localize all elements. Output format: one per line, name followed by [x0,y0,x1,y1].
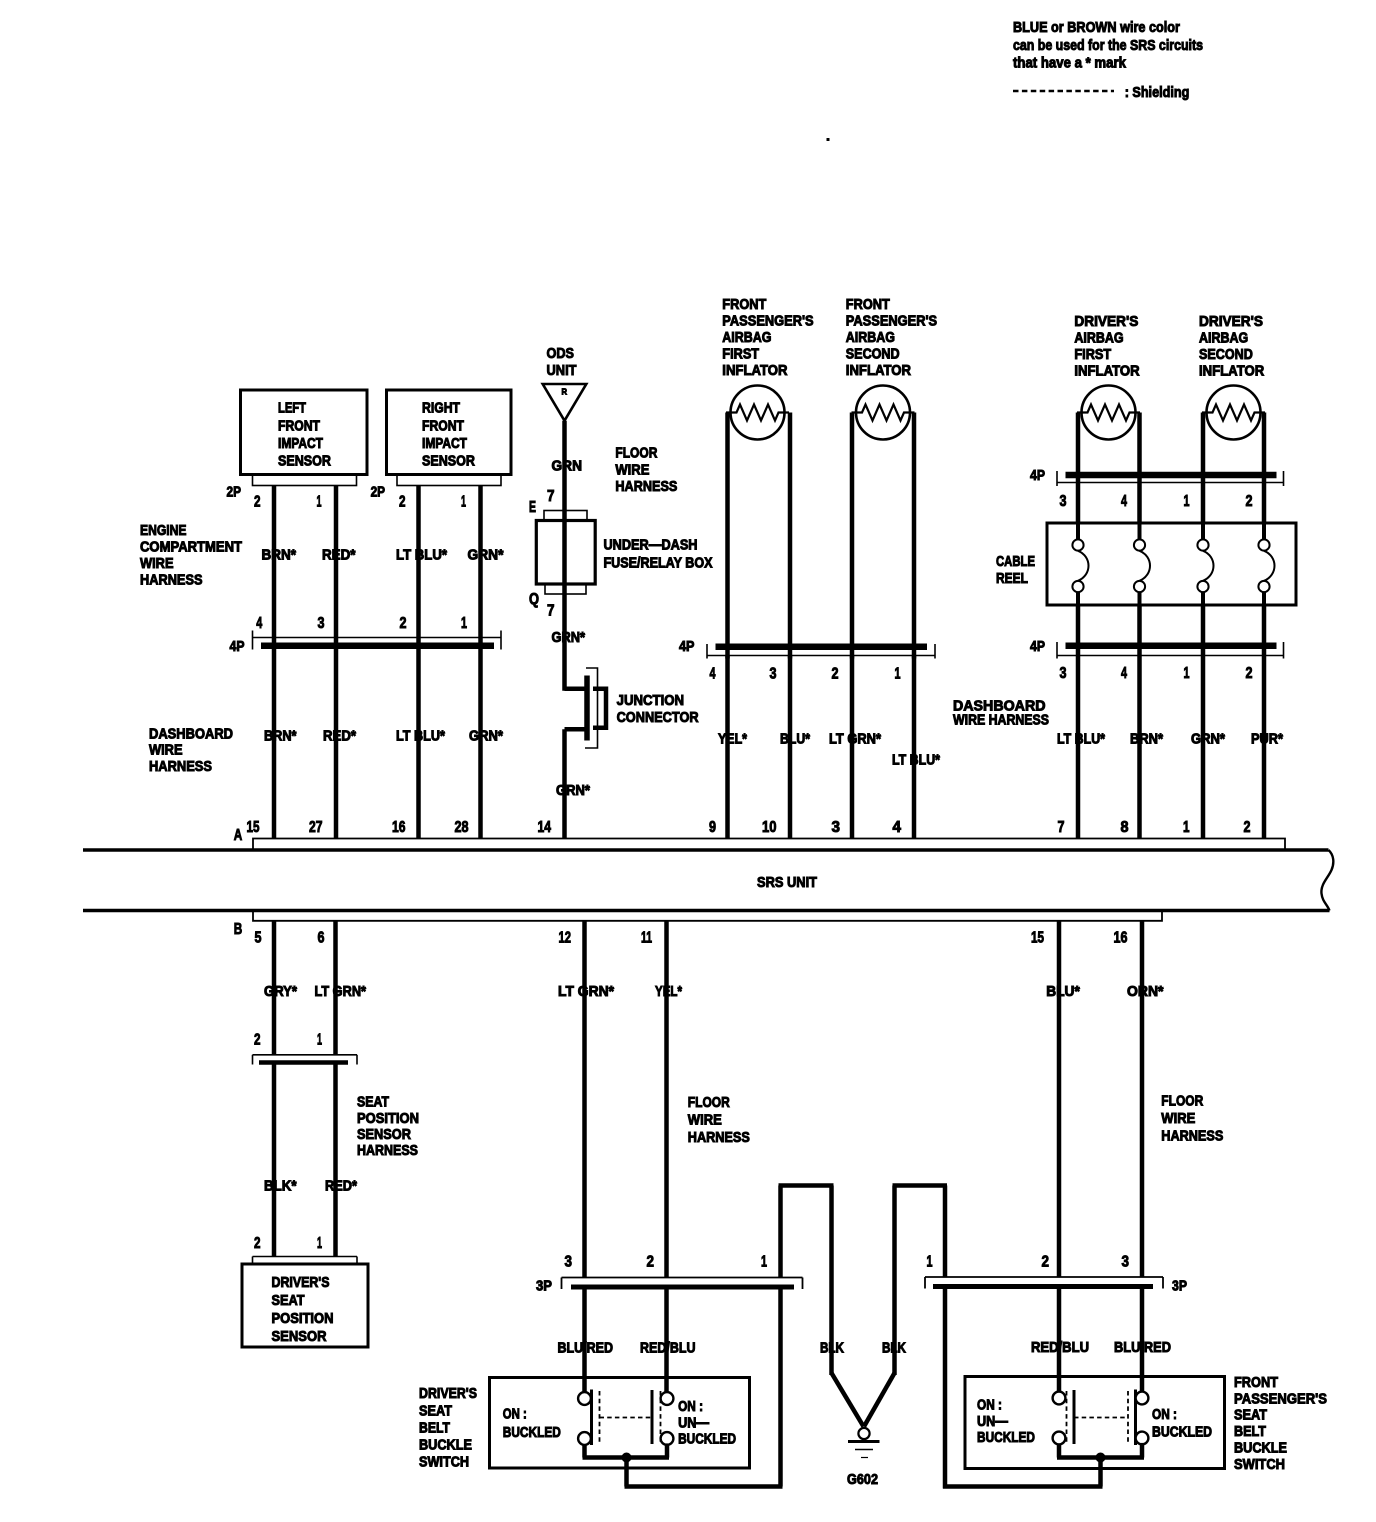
label: DRIVERS AIRBAG FIRST INFLATOR [1074,314,1140,380]
wire GRN* (right sensor pin1 to 4P pin1) [468,486,504,650]
wire BRN* (left sensor pin2 to 4P pin4) [262,486,297,650]
legend shielding dashed line [1013,90,1114,93]
wire BLU/RED (3P pin3 to passenger buckle switch) [1114,1289,1171,1392]
SRS unit connector B pin numbers [234,921,1128,947]
svg-text:SWITCH: SWITCH [1234,1457,1285,1473]
under-dash fuse/relay box [536,511,712,595]
svg-text:BLUE or BROWN wire color: BLUE or BROWN wire color [1013,20,1180,36]
svg-text:UN—: UN— [678,1415,709,1431]
svg-text:HARNESS: HARNESS [688,1130,750,1146]
svg-text:LT GRN*: LT GRN* [558,984,614,1000]
svg-text:9: 9 [709,819,716,836]
svg-text:HARNESS: HARNESS [615,479,677,495]
svg-text:CABLE: CABLE [996,554,1035,570]
svg-text:FIRST: FIRST [1074,347,1111,363]
svg-text:LT BLU*: LT BLU* [396,547,447,563]
box: DRIVERS SEAT POSITION SENSOR [242,1264,368,1347]
svg-text:2: 2 [254,1032,261,1049]
svg-text:4: 4 [1121,665,1127,682]
svg-text:4P: 4P [1030,639,1045,655]
sensor box: RIGHT FRONT IMPACT SENSOR [387,390,512,475]
label: DASHBOARD WIRE HARNESS (left) [149,726,233,775]
ground G602 symbol [847,1428,880,1488]
svg-text:1: 1 [317,1032,322,1049]
label: DASHBOARD WIRE HARNESS (right) [953,698,1049,728]
wire LT GRN* (SRS B6 to seat position connector pin1) [315,921,367,1055]
svg-text:BUCKLED: BUCKLED [503,1425,561,1441]
legend label : Shielding [1125,85,1190,101]
svg-text:LT BLU*: LT BLU* [1057,731,1105,747]
svg-text:2: 2 [399,494,406,511]
label: ENGINE COMPARTMENT WIRE HARNESS [140,523,242,589]
switch contacts passenger buckle (buckled side) [1074,1390,1148,1446]
wire RED/BLU (3P pin2 to passenger buckle switch) [1031,1289,1089,1392]
squib: front passenger airbag second inflator [852,386,915,440]
svg-text:INFLATOR: INFLATOR [1199,364,1265,380]
svg-text:FUSE/RELAY BOX: FUSE/RELAY BOX [604,555,713,571]
cable reel sliding contact 2 [1134,523,1150,605]
wire YEL* (first inflator to 4P pin4) [725,413,730,659]
svg-text:4: 4 [1121,493,1127,510]
svg-text:BUCKLED: BUCKLED [1152,1425,1212,1441]
svg-text:ON :: ON : [503,1406,527,1422]
squib: front passenger airbag first inflator [726,386,789,440]
svg-text:1: 1 [761,1254,767,1271]
wire LT BLU* (cable reel to SRS A7) [1057,605,1105,839]
wire BLK ground riser left (3P pin1 up and over) [779,1186,864,1427]
label: ON BUCKLED (passenger) [1152,1407,1212,1441]
svg-text:7: 7 [1058,819,1065,836]
wire RED* (left sensor pin1 to 4P pin3) [322,486,356,650]
svg-text:4: 4 [893,819,902,836]
svg-text:1: 1 [927,1254,933,1271]
svg-text:SENSOR: SENSOR [422,454,475,470]
svg-text:WIRE: WIRE [140,556,174,572]
connector 4P cable reel upper [1030,468,1284,510]
wire YEL* (SRS B11 to 3P pin2) [655,921,682,1278]
svg-text:PASSENGER'S: PASSENGER'S [722,313,814,329]
svg-text:1: 1 [461,615,467,632]
label: FLOOR WIRE HARNESS (driver side) [688,1095,750,1146]
svg-text:3: 3 [565,1254,573,1271]
SRS unit connector A strip [253,839,1285,850]
label: FLOOR WIRE HARNESS (passenger side) [1161,1093,1223,1144]
svg-text:BLK: BLK [882,1340,906,1356]
svg-text:1: 1 [461,494,466,511]
svg-text:RED/BLU: RED/BLU [1031,1340,1089,1356]
connector E7 (fuse box top) [529,488,587,521]
svg-text:WIRE: WIRE [688,1113,722,1129]
svg-text:YEL*: YEL* [655,984,682,1000]
svg-text:BLU/RED: BLU/RED [558,1340,614,1356]
connector 4P cable reel lower [1030,639,1284,682]
svg-text:2: 2 [400,615,407,632]
svg-text:INFLATOR: INFLATOR [846,363,912,379]
label: DRIVERS AIRBAG SECOND INFLATOR [1199,314,1265,380]
wire (second inflator right to cable reel 4P pin2) [1262,413,1267,525]
svg-text:Q: Q [529,591,539,608]
svg-text:DRIVER'S: DRIVER'S [272,1275,330,1291]
label: ON UN-BUCKLED (driver) [678,1399,736,1448]
svg-text:15: 15 [247,819,260,836]
svg-text:6: 6 [318,930,325,947]
svg-text:WIRE: WIRE [149,743,183,759]
svg-text:2P: 2P [227,484,242,500]
svg-text:SEAT: SEAT [272,1293,305,1309]
svg-text:FLOOR: FLOOR [688,1095,730,1111]
svg-text:WIRE HARNESS: WIRE HARNESS [953,713,1049,729]
connector above drivers seat position sensor [253,1235,358,1264]
svg-text:SENSOR: SENSOR [278,454,331,470]
svg-text:UNDER—DASH: UNDER—DASH [604,538,698,554]
svg-text:3P: 3P [1172,1278,1187,1294]
svg-text:3: 3 [1060,493,1067,510]
box: drivers seat belt buckle switch [490,1378,750,1469]
svg-text:INFLATOR: INFLATOR [722,363,788,379]
sensor box: LEFT FRONT IMPACT SENSOR [241,390,368,475]
svg-text:4P: 4P [230,639,245,655]
SRS unit connector B strip [253,911,1162,921]
svg-text:POSITION: POSITION [357,1111,419,1127]
svg-text:GRN*: GRN* [1191,731,1225,747]
SRS unit box [83,850,1333,911]
svg-text:can be used for the SRS circui: can be used for the SRS circuits [1013,38,1203,54]
svg-text:BLU/RED: BLU/RED [1114,1340,1171,1356]
svg-text:UN—: UN— [977,1414,1008,1430]
cable reel sliding contact 3 [1197,523,1213,605]
wire (first inflator right to cable reel 4P pin4) [1137,413,1142,525]
svg-text:12: 12 [559,930,572,947]
connector 4P front passenger airbag [679,639,935,683]
svg-text:RED*: RED* [322,547,356,563]
wire BLU* (first inflator to 4P pin3) [788,413,793,659]
svg-text:SECOND: SECOND [846,346,900,362]
svg-text:SEAT: SEAT [357,1095,389,1111]
svg-text:ON :: ON : [1152,1407,1177,1423]
svg-text:POSITION: POSITION [272,1311,334,1327]
svg-text:YEL*: YEL* [718,731,747,747]
svg-text:DRIVER'S: DRIVER'S [1074,314,1138,330]
wire LT BLU* (right sensor pin2 to 4P pin2) [396,486,447,650]
svg-text:1: 1 [317,1235,322,1252]
wire BLU* (SRS B15 to 3P pin2) [1046,921,1080,1277]
svg-text:SECOND: SECOND [1199,347,1253,363]
svg-text:2P: 2P [371,484,386,500]
label: FLOOR WIRE HARNESS (ODS) [615,446,677,496]
wire GRN* (fuse box to junction connector) [552,594,586,691]
squib: drivers airbag second inflator [1202,386,1265,440]
cable reel box [996,523,1296,605]
svg-text:BELT: BELT [419,1420,450,1436]
svg-text:GRN*: GRN* [469,728,503,744]
wire BLK* (seat position harness) [264,1065,297,1257]
svg-text:FRONT: FRONT [1234,1375,1278,1391]
svg-text:SENSOR: SENSOR [357,1127,411,1143]
svg-text:PUR*: PUR* [1251,731,1283,747]
svg-text:27: 27 [309,819,323,836]
svg-text:4P: 4P [679,639,695,655]
svg-text:1: 1 [895,666,901,683]
label: DRIVERS SEAT BELT BUCKLE SWITCH [419,1386,477,1470]
svg-text:8: 8 [1121,819,1129,836]
svg-text:IMPACT: IMPACT [278,436,323,452]
svg-text:GRN*: GRN* [552,630,586,646]
svg-text:DASHBOARD: DASHBOARD [149,726,233,742]
svg-text:16: 16 [1114,930,1128,947]
connector 2P under left front impact sensor [227,475,357,511]
svg-text:JUNCTION: JUNCTION [617,693,685,709]
svg-text:LT GRN*: LT GRN* [829,731,881,747]
wire (second inflator left to cable reel 4P pin1) [1201,413,1206,525]
wire GRN* dashboard (4P pin1 to SRS A28) [469,649,503,839]
wire GRY* (SRS B5 to seat position connector pin2) [264,921,297,1055]
svg-text:BLK*: BLK* [264,1178,297,1194]
svg-text:3: 3 [832,819,841,836]
svg-text:WIRE: WIRE [615,462,649,478]
svg-text:RED/BLU: RED/BLU [640,1340,696,1356]
svg-text:RED*: RED* [323,728,356,744]
svg-text:ODS: ODS [547,346,575,362]
svg-text:FRONT: FRONT [422,418,464,434]
wire GRN* (junction connector to SRS A14) [556,729,590,838]
wire RED* (seat position harness) [325,1065,357,1257]
svg-text:FRONT: FRONT [722,297,766,313]
svg-text:BUCKLE: BUCKLE [419,1438,472,1454]
svg-text:B: B [234,921,243,938]
svg-text:A: A [234,827,243,844]
svg-text:4P: 4P [1030,468,1045,484]
wire YEL* label and run to SRS A9 [718,656,747,839]
svg-text:1: 1 [1184,665,1190,682]
svg-text:2: 2 [1042,1254,1050,1271]
svg-text:SEAT: SEAT [1234,1408,1267,1424]
svg-text:BLU*: BLU* [780,731,810,747]
svg-text:ON :: ON : [678,1399,703,1415]
svg-text:FLOOR: FLOOR [615,446,657,462]
svg-text:3: 3 [1060,665,1067,682]
wire: buckle switch common to ground run (passenger) [943,1443,1144,1487]
svg-text:4: 4 [710,666,716,683]
wire LT GRN* (SRS B12 to 3P pin3) [558,921,614,1278]
connector 2P under right front impact sensor [371,475,501,511]
wire (first inflator left to cable reel 4P pin3) [1076,413,1081,525]
switch contacts driver buckle (buckled side) [578,1390,599,1446]
svg-text:SWITCH: SWITCH [419,1455,469,1471]
svg-text:11: 11 [641,930,652,947]
svg-text:2: 2 [647,1254,655,1271]
svg-text:RIGHT: RIGHT [422,401,460,417]
svg-text:FRONT: FRONT [278,418,320,434]
wire RED/BLU (3P pin2 to buckle switch) [640,1289,696,1392]
svg-text:1: 1 [1184,493,1190,510]
svg-text:14: 14 [538,819,552,836]
svg-text:COMPARTMENT: COMPARTMENT [140,540,242,556]
label: SEAT POSITION SENSOR HARNESS [357,1095,419,1159]
svg-text:28: 28 [455,819,469,836]
connector 4P engine compartment / dashboard [230,615,502,655]
svg-text:LEFT: LEFT [278,401,306,417]
svg-text:15: 15 [1031,930,1044,947]
wire: buckle switch common to ground run (driver) [583,1289,783,1487]
label: FRONT PASSENGERS SEAT BELT BUCKLE SWITCH [1234,1375,1327,1473]
svg-text:LT BLU*: LT BLU* [892,752,940,768]
svg-text:CONNECTOR: CONNECTOR [617,710,699,726]
svg-text:4: 4 [256,615,262,632]
svg-text:SRS UNIT: SRS UNIT [757,875,817,891]
svg-text:HARNESS: HARNESS [149,759,212,775]
wire LT GRN* (second inflator to 4P pin2) [850,413,855,659]
svg-text:ENGINE: ENGINE [140,523,187,539]
svg-text:16: 16 [392,819,406,836]
svg-text:BUCKLED: BUCKLED [977,1430,1035,1446]
svg-text:LT BLU*: LT BLU* [396,728,445,744]
stray mark (scan speck) [827,138,830,141]
svg-text:SEAT: SEAT [419,1403,452,1419]
svg-text:7: 7 [547,488,555,505]
svg-text:GRN*: GRN* [468,547,504,563]
wire LT GRN* label and run to SRS A3 [829,656,881,839]
svg-text:7: 7 [547,603,555,620]
svg-text:BUCKLE: BUCKLE [1234,1440,1287,1456]
svg-text:ON :: ON : [977,1397,1002,1413]
svg-text:2: 2 [254,1235,261,1252]
wire RED* dashboard (4P pin3 to SRS A27) [323,649,356,839]
svg-text:BLU*: BLU* [1046,984,1080,1000]
svg-text:2: 2 [1246,493,1253,510]
svg-text:LT GRN*: LT GRN* [315,984,367,1000]
svg-text:HARNESS: HARNESS [140,573,203,589]
svg-text:DRIVER'S: DRIVER'S [1199,314,1263,330]
svg-text:HARNESS: HARNESS [357,1143,418,1159]
wire PUR* (cable reel to SRS A2) [1251,605,1283,839]
svg-text:AIRBAG: AIRBAG [846,330,895,346]
svg-text:1: 1 [317,494,322,511]
svg-text:BELT: BELT [1234,1424,1266,1440]
label: FRONT PASSENGER AIRBAG SECOND INFLATOR [846,297,938,379]
svg-text:IMPACT: IMPACT [422,436,467,452]
svg-text:GRN: GRN [552,459,583,475]
connector Q7 (fuse box bottom) [529,584,586,620]
svg-text:3: 3 [1122,1254,1130,1271]
svg-text:5: 5 [255,930,262,947]
svg-text:GRY*: GRY* [264,984,297,1000]
wire LT BLU* (second inflator to 4P pin1) [912,413,917,659]
svg-text:SENSOR: SENSOR [272,1329,327,1345]
svg-text:AIRBAG: AIRBAG [1074,331,1123,347]
svg-text:2: 2 [832,666,839,683]
svg-text:WIRE: WIRE [1161,1111,1195,1127]
svg-text:AIRBAG: AIRBAG [1199,331,1248,347]
svg-text:ORN*: ORN* [1127,984,1164,1000]
svg-text:BRN*: BRN* [264,728,297,744]
svg-text:RED*: RED* [325,1178,357,1194]
svg-text:2: 2 [1244,819,1251,836]
switch contacts driver buckle (unbuckled side) [600,1390,674,1445]
label: ON BUCKLED (driver) [503,1406,561,1441]
connector 3P front passenger seat belt buckle switch [925,1254,1187,1295]
wire LT BLU* dashboard (4P pin2 to SRS A16) [396,649,445,839]
cable reel sliding contact 4 [1258,523,1274,605]
connector 2P seat position sensor harness [253,1032,358,1065]
note: wire color legend text [1013,20,1203,72]
connector 3P driver seat belt buckle switch [536,1254,803,1295]
wire BLU* label and run to SRS A10 [780,656,810,839]
svg-text:10: 10 [762,819,777,836]
ODS unit (triangle symbol) [543,346,587,421]
svg-text:DRIVER'S: DRIVER'S [419,1386,477,1402]
svg-text:BLK: BLK [820,1340,844,1356]
svg-text:UNIT: UNIT [547,363,577,379]
wire GRN (ODS unit to under-dash fuse/relay box pin E7) [552,421,583,511]
svg-text:E: E [529,499,536,516]
wire BLU/RED (3P pin3 to buckle switch) [558,1289,614,1392]
label: FRONT PASSENGER AIRBAG FIRST INFLATOR [722,297,814,379]
squib: drivers airbag first inflator [1077,386,1140,440]
svg-text:3P: 3P [536,1278,552,1294]
svg-text:BRN*: BRN* [1130,731,1163,747]
svg-text:FLOOR: FLOOR [1161,1093,1203,1109]
svg-text:PASSENGER'S: PASSENGER'S [1234,1391,1327,1407]
svg-text:HARNESS: HARNESS [1161,1129,1223,1145]
svg-text:PASSENGER'S: PASSENGER'S [846,313,938,329]
wire ORN* (SRS B16 to 3P pin3) [1127,921,1164,1277]
wire BRN* (cable reel to SRS A8) [1130,605,1163,839]
svg-text:that have a * mark: that have a * mark [1013,56,1127,72]
svg-text:3: 3 [318,615,325,632]
svg-text:REEL: REEL [996,571,1028,587]
svg-text:: Shielding: : Shielding [1125,85,1190,101]
svg-text:G602: G602 [847,1472,878,1488]
svg-text:BUCKLED: BUCKLED [678,1432,736,1448]
svg-text:FRONT: FRONT [846,297,890,313]
switch contacts passenger buckle (unbuckled side) [1053,1390,1074,1444]
svg-text:1: 1 [1183,819,1190,836]
svg-text:2: 2 [1246,665,1253,682]
svg-text:3: 3 [770,666,777,683]
junction connector [565,668,700,748]
wire BLK ground riser right (3P pin1 up and over) [864,1186,947,1489]
svg-text:INFLATOR: INFLATOR [1074,364,1140,380]
wire BRN* dashboard (4P pin4 to SRS A15) [264,649,297,839]
svg-text:GRN*: GRN* [556,783,590,799]
label: ON UN-BUCKLED (passenger) [977,1397,1035,1446]
cable reel sliding contact 1 [1072,523,1088,605]
SRS unit connector A pin numbers [234,819,1251,844]
svg-text:FIRST: FIRST [722,346,759,362]
svg-text:R: R [562,387,568,397]
box: front passenger seat belt buckle switch [965,1377,1225,1469]
svg-text:2: 2 [254,494,261,511]
svg-text:AIRBAG: AIRBAG [722,330,771,346]
svg-text:BRN*: BRN* [262,547,297,563]
wire GRN* (cable reel to SRS A1) [1191,605,1225,839]
wire LT BLU* label and run to SRS A4 [892,656,940,839]
